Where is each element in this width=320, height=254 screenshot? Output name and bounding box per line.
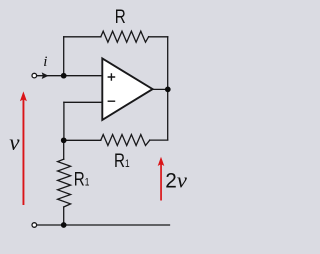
wire R1 horizontal right stub xyxy=(150,139,168,141)
wire noninverting input xyxy=(37,75,102,77)
wire op-amp output xyxy=(152,88,167,90)
terminal bottom xyxy=(32,223,37,228)
wire top rail left segment xyxy=(64,36,101,38)
wire R1 vertical top stub xyxy=(63,140,65,159)
resistor R xyxy=(101,31,149,42)
op-amp minus sign xyxy=(108,100,116,102)
wire inverting input xyxy=(64,101,102,103)
resistor R1 vertical xyxy=(58,159,71,207)
op-amp U1 xyxy=(102,58,152,120)
voltage arrow v (red) xyxy=(20,91,27,205)
wire R1 horizontal left stub xyxy=(64,139,101,141)
node junction inverting xyxy=(61,137,67,143)
node junction bottom xyxy=(61,222,67,228)
wire top-left vertical leg xyxy=(63,37,65,76)
wire bottom rail xyxy=(37,224,170,226)
wire top rail right segment xyxy=(149,36,168,38)
wire inverting leg vertical xyxy=(63,102,65,140)
svg-text:i: i xyxy=(43,54,47,70)
terminal top input xyxy=(32,73,37,78)
node junction noninverting xyxy=(61,73,67,79)
current arrow head i xyxy=(42,72,49,79)
voltage arrow 2v (red) xyxy=(158,157,165,201)
wire R1 vertical bottom stub xyxy=(63,207,65,225)
wire right leg xyxy=(167,37,169,140)
svg-text:v: v xyxy=(9,130,20,155)
op-amp plus sign xyxy=(108,73,116,81)
svg-text:R: R xyxy=(115,5,126,27)
resistor R1 horizontal xyxy=(101,135,150,146)
svg-text:2v: 2v xyxy=(165,168,187,193)
node junction output xyxy=(165,87,171,93)
